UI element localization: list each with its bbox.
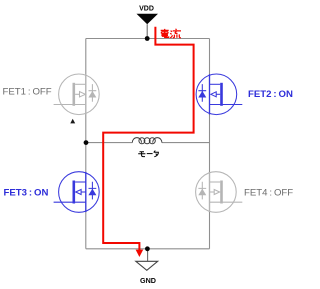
wire top rail bbox=[86, 38, 210, 40]
wire motor row right segment bbox=[162, 142, 210, 144]
node GND junction bbox=[145, 246, 150, 251]
wire motor row left segment bbox=[86, 142, 133, 144]
node motor left junction bbox=[84, 140, 89, 145]
svg-text:FET1 : OFF: FET1 : OFF bbox=[3, 87, 52, 98]
wire bottom rail bbox=[86, 248, 210, 250]
label FET4 : OFF bbox=[244, 188, 293, 199]
value label motor (katakana mo-ta) bbox=[138, 151, 158, 157]
label GND bbox=[140, 276, 156, 285]
wire right branch bbox=[209, 39, 211, 249]
wire left branch bbox=[85, 39, 87, 249]
svg-text:FET4 : OFF: FET4 : OFF bbox=[244, 188, 293, 199]
label current (kanji den-ryu, red) bbox=[161, 29, 181, 38]
transistor FET1 (OFF, upper-left) bbox=[54, 74, 100, 115]
label VDD bbox=[139, 6, 154, 13]
node VDD junction bbox=[145, 36, 150, 41]
annotation arrow below FET1 bbox=[70, 119, 75, 124]
label FET3 : ON bbox=[4, 188, 49, 199]
ground bbox=[136, 249, 158, 270]
svg-text:FET2 : ON: FET2 : ON bbox=[248, 89, 293, 100]
wire current path (red) bbox=[103, 27, 193, 257]
transistor FET4 (OFF, lower-right) bbox=[196, 172, 243, 213]
label FET2 : ON bbox=[248, 89, 293, 100]
label FET1 : OFF bbox=[3, 87, 52, 98]
transistor FET2 (ON, upper-right) bbox=[196, 74, 242, 115]
motor L1 coil bbox=[132, 138, 162, 144]
VDD supply symbol bbox=[137, 14, 159, 39]
svg-text:FET3 : ON: FET3 : ON bbox=[4, 188, 49, 199]
transistor FET3 (ON, lower-left) bbox=[54, 172, 100, 213]
svg-text:GND: GND bbox=[140, 276, 156, 285]
svg-text:VDD: VDD bbox=[139, 6, 154, 13]
